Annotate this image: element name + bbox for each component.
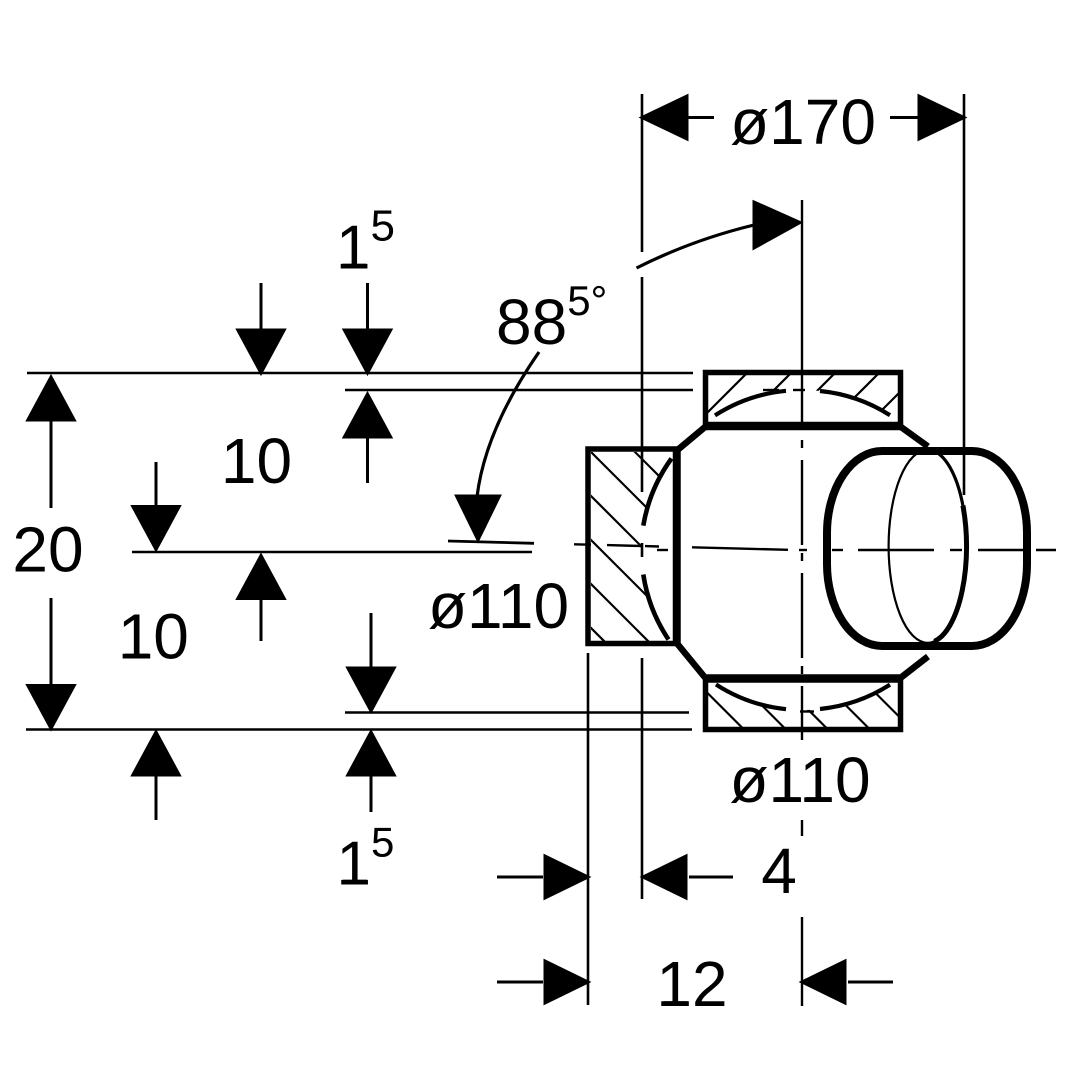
svg-text:ø110: ø110: [428, 570, 569, 642]
arrow up x371 to line C dim 1.5: [370, 775, 373, 812]
vertical centerline main axis: [801, 200, 803, 422]
ball arc in left socket upper: [643, 459, 671, 526]
svg-text:ø110: ø110: [729, 744, 870, 816]
slanted branch axis 88.5deg: [448, 541, 534, 543]
svg-text:10: 10: [118, 601, 189, 673]
horizontal centerline spigot axis: [657, 549, 668, 551]
extension line x964: [963, 94, 966, 495]
reference line E branch middle: [132, 551, 532, 554]
arrow up x367 to line B dim 1.5: [366, 437, 369, 483]
ball arc in left socket lower: [643, 575, 668, 640]
dim dia170 left arrow: [688, 116, 714, 119]
offset plane dash bottom socket: [800, 710, 814, 712]
arrow down x261 to line A: [260, 283, 263, 331]
spigot bore rim medium arc: [931, 450, 963, 505]
arrow up x156 to line C: [155, 775, 158, 820]
arrow up x51 to line A dim 20: [50, 420, 53, 508]
hatching of socket cut walls: [403, 360, 932, 740]
dim 4 arrows: [497, 876, 543, 879]
body outline with chamfers: [678, 427, 929, 678]
offset plane dashes top socket: [763, 389, 779, 391]
svg-text:ø170: ø170: [730, 86, 876, 158]
extension line x588: [587, 653, 590, 1005]
reference line D offset 1.5 bottom: [345, 711, 689, 714]
arrow down x371 to line D dim 1.5: [370, 613, 373, 668]
dim 12 arrows: [497, 981, 543, 984]
reference line C bottom face: [26, 728, 692, 731]
top socket ring: [706, 373, 901, 425]
foot serifs for digit 1: [776, 139, 800, 144]
spigot bore ellipse thin: [889, 450, 967, 643]
spigot bore rim heavy arc: [934, 506, 966, 642]
svg-text:10: 10: [221, 425, 292, 497]
svg-text:20: 20: [12, 514, 83, 586]
ball arc in top socket: [715, 391, 786, 416]
arrow down x51 to line C dim 20: [50, 598, 53, 686]
arrow up x261 to line E dim 10: [260, 598, 263, 641]
svg-text:4: 4: [761, 835, 797, 907]
reference line A top face: [27, 372, 693, 375]
left socket ring: [588, 449, 676, 644]
svg-text:12: 12: [656, 948, 727, 1020]
leader arrow to vertical centerline 88.5: [637, 225, 755, 268]
arrow down x367 to line A dim 1.5: [366, 283, 369, 331]
arrow down x156 to line E dim 10: [155, 462, 158, 507]
extension line x642: [641, 94, 644, 252]
dim dia170 right arrow: [890, 116, 918, 119]
reference line B offset 1.5: [345, 389, 693, 392]
bottom socket ring: [706, 680, 901, 730]
ball arc in bottom socket: [716, 685, 786, 710]
leader arrow to slanted axis 88.5: [477, 352, 539, 497]
spigot outlet cylinder: [827, 451, 1027, 646]
